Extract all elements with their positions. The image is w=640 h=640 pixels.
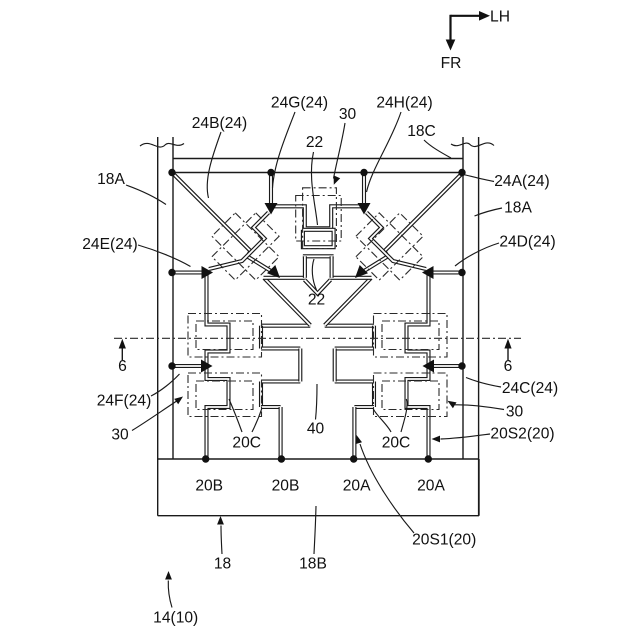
node top bead G	[267, 169, 274, 176]
phantom patch 30 left lower cross	[188, 373, 262, 417]
bead 24B diagonal	[172, 173, 275, 274]
svg-text:20C: 20C	[382, 435, 411, 452]
bead 20A comb	[407, 272, 429, 460]
svg-text:30: 30	[506, 404, 524, 421]
cross member 18C top edge	[173, 158, 463, 160]
section line 6-6	[114, 337, 521, 339]
phantom patch 30 left upper cross	[188, 314, 262, 358]
bead vert right a	[372, 326, 376, 349]
section arrow 6 right	[507, 346, 509, 360]
leader 24F(24)	[151, 374, 180, 396]
arrow bead 24E right	[202, 266, 214, 279]
bead funnel wall right	[325, 278, 371, 325]
compass FR arrow	[449, 15, 451, 42]
leader 22 top	[311, 152, 317, 225]
svg-text:24A(24): 24A(24)	[494, 173, 549, 190]
svg-text:40: 40	[307, 421, 325, 438]
phantom patch 30 right upper cross	[374, 314, 448, 358]
leader 24H(24)	[367, 112, 402, 192]
svg-text:18C: 18C	[407, 123, 436, 140]
phantom patch 30 diamond upper-right	[346, 203, 434, 291]
svg-text:24C(24): 24C(24)	[502, 380, 558, 397]
right rail break squiggle	[451, 143, 494, 147]
leader 24C(24)	[466, 378, 501, 388]
leader 20C left b	[252, 409, 262, 433]
svg-text:20S2(20): 20S2(20)	[490, 426, 554, 443]
svg-text:FR: FR	[441, 55, 462, 72]
arrow bead 24H down	[358, 203, 371, 215]
bead 20A leg inner	[352, 407, 356, 459]
bead arm3 left	[261, 379, 300, 383]
bead 22 hat channel	[273, 206, 363, 228]
svg-text:18A: 18A	[504, 200, 532, 217]
node rail right lower	[458, 362, 465, 369]
bead 24G zigzag	[209, 213, 269, 270]
node top bead H	[360, 169, 367, 176]
svg-text:20A: 20A	[343, 478, 371, 495]
bead 22 tab leg left	[303, 256, 307, 278]
arrow bead 24D left	[422, 266, 434, 279]
bead 20B comb	[207, 272, 229, 460]
leader 18A left	[126, 185, 166, 205]
bead arm2 right	[335, 346, 374, 350]
bead 24F stem	[172, 364, 203, 368]
svg-text:6: 6	[504, 358, 513, 375]
arrow bead 24B SE	[267, 265, 280, 278]
leader 20C right a	[401, 399, 407, 432]
node top-right	[458, 169, 465, 176]
bead 40 trunk wall left	[298, 349, 302, 382]
svg-text:22: 22	[306, 134, 323, 151]
leader 24E(24)	[138, 245, 191, 267]
bead 22 small V	[305, 280, 331, 294]
left rail break squiggle	[140, 143, 184, 147]
svg-text:18: 18	[214, 556, 231, 573]
node rail left upper	[168, 269, 175, 276]
svg-text:24B(24): 24B(24)	[192, 115, 247, 132]
phantom patch 30 right lower cross	[374, 373, 448, 417]
svg-text:24F(24): 24F(24)	[97, 393, 152, 410]
leader 18A right	[475, 208, 503, 216]
compass LH arrow	[451, 15, 482, 17]
svg-text:30: 30	[339, 106, 357, 123]
bead 20B leg inner	[279, 407, 283, 459]
svg-text:20C: 20C	[232, 435, 261, 452]
node 20A inner	[350, 455, 357, 462]
bead connector left	[264, 276, 306, 280]
bead arm1 right	[325, 324, 374, 328]
leader 20C right b	[373, 409, 391, 433]
bead 24G stem	[269, 173, 273, 206]
svg-text:24H(24): 24H(24)	[376, 95, 432, 112]
left rail outer line	[157, 137, 159, 516]
bead vert left a	[259, 326, 263, 349]
leader 24D(24)	[455, 243, 499, 266]
cross member 18B bottom band top edge	[158, 458, 479, 460]
svg-text:18B: 18B	[299, 556, 327, 573]
bead connector right	[330, 276, 372, 280]
svg-text:6: 6	[118, 358, 127, 375]
svg-text:20B: 20B	[272, 478, 300, 495]
bead vert right b	[372, 382, 376, 408]
bead 24H zigzag	[367, 213, 427, 270]
leader 40	[316, 384, 318, 420]
svg-text:24D(24): 24D(24)	[499, 234, 555, 251]
bead 24D stem	[432, 270, 463, 274]
node rail left lower	[168, 362, 175, 369]
svg-text:24G(24): 24G(24)	[271, 95, 328, 112]
bead vert left b	[259, 382, 263, 408]
leader 30 right	[455, 405, 504, 410]
phantom patch 30 top-center inner rect	[303, 188, 337, 249]
arrow bead 24A SW	[355, 265, 368, 278]
leader 20S1(20)	[360, 444, 414, 533]
leader 18B	[314, 506, 316, 554]
node 20A outer	[425, 455, 432, 462]
leader 24G(24)	[273, 112, 296, 188]
leader 18	[221, 526, 222, 555]
node 20B outer	[202, 455, 209, 462]
bead 22 tab leg right	[330, 256, 334, 278]
svg-text:LH: LH	[490, 9, 510, 26]
bead 24C stem	[432, 364, 463, 368]
section arrow 6 left	[121, 346, 123, 360]
right rail outer line	[478, 137, 480, 516]
bead 40 trunk wall right	[333, 349, 337, 382]
svg-text:18A: 18A	[97, 171, 125, 188]
bead 22 box	[303, 230, 334, 247]
bottom band right edge	[478, 459, 480, 516]
leader 30 top	[334, 123, 346, 179]
phantom patch 30 top-center outer rect	[296, 196, 342, 242]
bead 24H stem	[362, 173, 366, 206]
cross member 18C bottom edge / node line	[172, 172, 462, 174]
leader 18C	[424, 140, 451, 158]
bead 24A diagonal	[360, 173, 463, 274]
leader 22 middle	[312, 259, 316, 290]
node rail right upper	[458, 269, 465, 276]
svg-text:24E(24): 24E(24)	[82, 236, 137, 253]
leader 24A(24)	[464, 175, 495, 182]
right rail inner line	[462, 137, 464, 459]
bead arm2 left	[261, 346, 300, 350]
arrow bead 24G down	[265, 203, 278, 215]
bead arm3 right	[335, 379, 374, 383]
svg-text:20A: 20A	[417, 478, 445, 495]
svg-text:20S1(20): 20S1(20)	[412, 532, 476, 549]
bead 22 lower bar	[303, 254, 334, 258]
leader 30 left	[132, 401, 178, 431]
node top-left	[168, 169, 175, 176]
svg-text:14(10): 14(10)	[153, 610, 198, 627]
leader 20S2(20)	[441, 434, 491, 439]
bead 24E stem	[172, 270, 203, 274]
left rail inner line	[172, 137, 174, 459]
arrow bead 24F right	[201, 360, 213, 373]
leader 20C left a	[229, 399, 242, 432]
bead arm1 left	[261, 324, 310, 328]
node 20B inner	[278, 455, 285, 462]
bead funnel wall left	[264, 278, 310, 325]
cross member 18B bottom band bottom edge	[158, 515, 479, 517]
phantom patch 30 diamond upper-left	[202, 203, 290, 291]
svg-text:22: 22	[308, 292, 325, 309]
arrow bead 24C left	[423, 360, 435, 373]
bead leg-horiz left	[261, 405, 281, 409]
leader 24B(24)	[207, 132, 221, 198]
bead leg-horiz right	[354, 405, 374, 409]
svg-text:20B: 20B	[195, 478, 223, 495]
svg-text:30: 30	[111, 427, 129, 444]
leader 14(10)	[168, 581, 172, 608]
